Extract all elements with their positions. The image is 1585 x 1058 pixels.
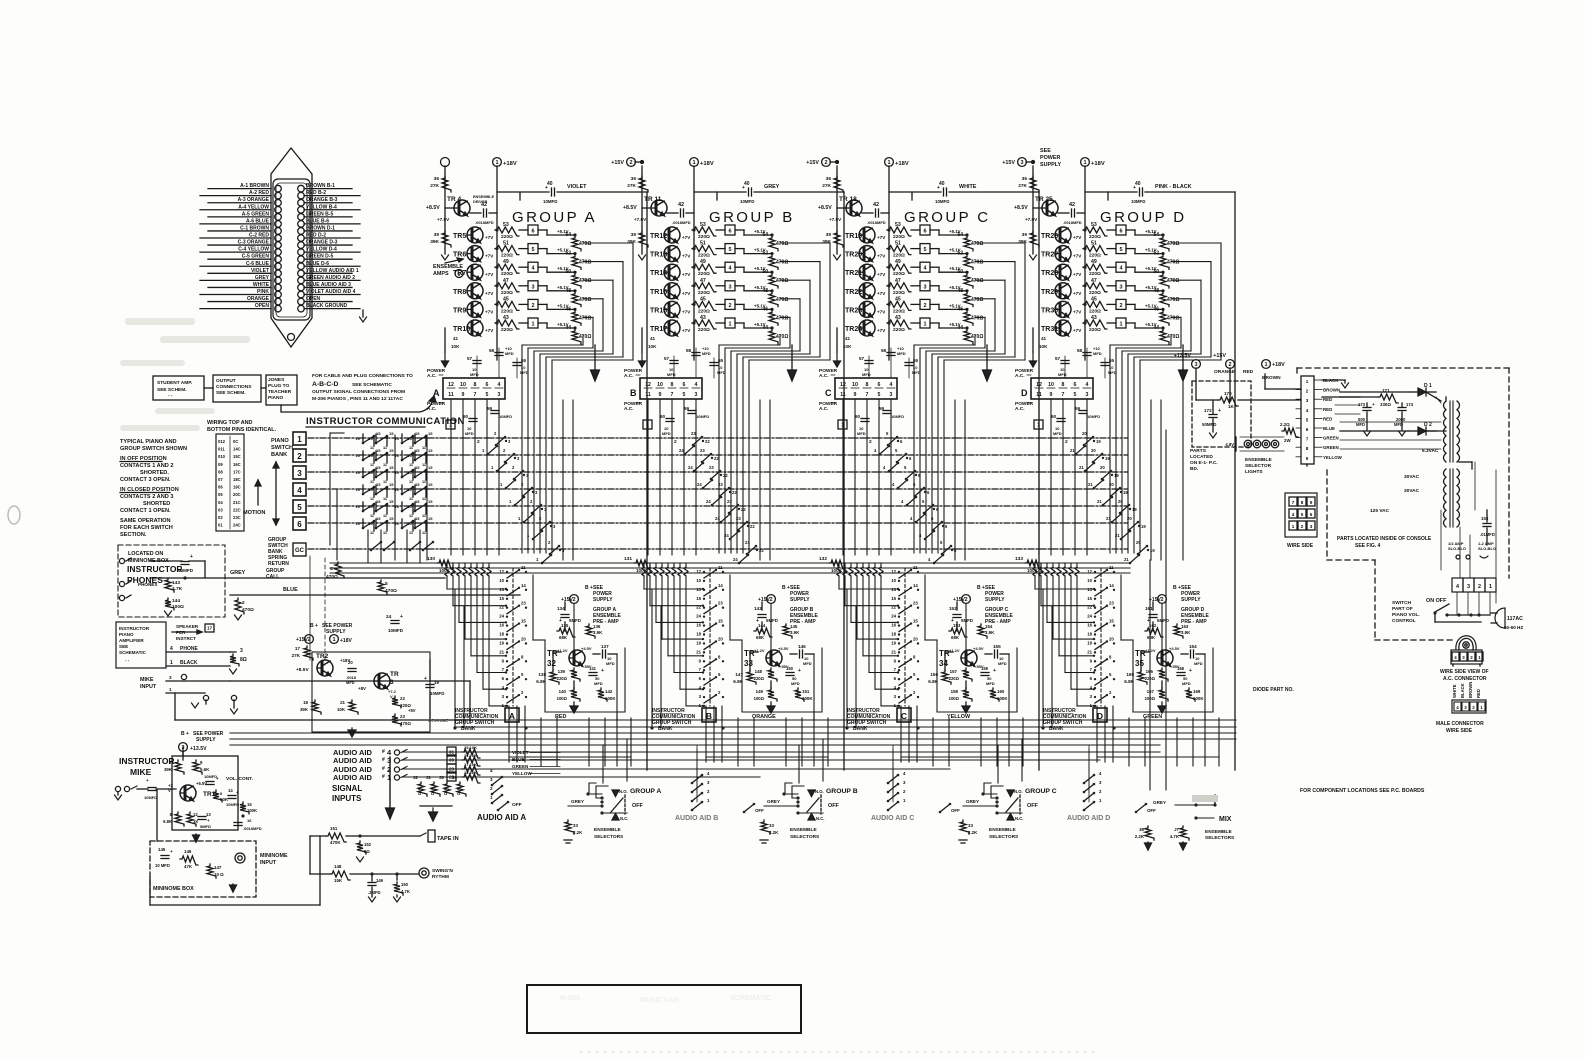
svg-text:15: 15: [376, 465, 381, 470]
svg-text:10: 10: [408, 470, 413, 475]
svg-text:33: 33: [769, 823, 774, 828]
svg-text:15: 15: [428, 431, 433, 436]
svg-text:OFF: OFF: [951, 808, 960, 813]
svg-text:+4.5V: +4.5V: [778, 646, 789, 651]
svg-text:BROWN: BROWN: [1468, 682, 1473, 698]
svg-text:68K: 68K: [1147, 635, 1156, 640]
svg-text:+: +: [190, 554, 193, 560]
svg-text:100K: 100K: [802, 696, 813, 701]
svg-text:20: 20: [1118, 499, 1123, 504]
svg-text:39K: 39K: [164, 767, 173, 772]
svg-text:GREY: GREY: [764, 184, 780, 190]
svg-text:3: 3: [531, 284, 534, 290]
svg-text:43: 43: [503, 315, 509, 321]
svg-text:49: 49: [1091, 259, 1097, 265]
svg-text:AUDIO AID A: AUDIO AID A: [477, 813, 526, 822]
svg-text:YELLOW B-4: YELLOW B-4: [306, 204, 337, 210]
svg-text:BANK: BANK: [461, 726, 476, 732]
svg-text:2: 2: [923, 303, 926, 309]
svg-text:TR26: TR26: [1041, 233, 1058, 240]
svg-text:+5.1V: +5.1V: [754, 303, 766, 308]
svg-text:BANK: BANK: [658, 726, 673, 732]
svg-text:B +: B +: [782, 585, 790, 591]
svg-text:24: 24: [386, 614, 392, 620]
svg-text:11: 11: [521, 565, 526, 570]
svg-text:+: +: [993, 668, 996, 674]
svg-text:4: 4: [498, 382, 501, 388]
svg-text:01: 01: [218, 523, 223, 528]
svg-text:ORANGE: ORANGE: [428, 718, 448, 723]
svg-text:11: 11: [422, 480, 426, 484]
svg-text:TR13: TR13: [650, 252, 667, 259]
svg-text:.0018MFD: .0018MFD: [672, 220, 691, 225]
svg-text:23: 23: [700, 448, 705, 453]
svg-text:15: 15: [376, 499, 381, 504]
svg-text:39K: 39K: [1018, 239, 1027, 245]
svg-text:CALL: CALL: [266, 574, 279, 580]
svg-text:1: 1: [923, 322, 926, 328]
svg-text:GREY: GREY: [767, 799, 780, 804]
svg-text:36: 36: [631, 176, 637, 182]
svg-text:22: 22: [400, 696, 405, 701]
svg-text:PLUG TO: PLUG TO: [268, 383, 290, 389]
svg-text:7: 7: [1292, 500, 1295, 505]
svg-text:TR 25: TR 25: [1035, 196, 1053, 203]
svg-text:15: 15: [428, 499, 433, 504]
svg-text:55: 55: [718, 358, 724, 363]
svg-text:+5.1V: +5.1V: [949, 229, 961, 234]
svg-text:INSTRUCTOR: INSTRUCTOR: [119, 756, 175, 766]
svg-text:155: 155: [993, 644, 1001, 649]
svg-text:11: 11: [383, 497, 387, 501]
svg-text:TR30: TR30: [1041, 307, 1058, 314]
svg-text:#: #: [382, 766, 385, 772]
svg-text:10K: 10K: [1039, 344, 1048, 349]
svg-text:AUDIO AID C: AUDIO AID C: [871, 815, 914, 822]
svg-text:10 MFD: 10 MFD: [155, 863, 170, 868]
svg-text:TR12: TR12: [650, 233, 667, 240]
svg-text:21: 21: [1079, 465, 1084, 470]
svg-text:220Ω: 220Ω: [1089, 234, 1101, 240]
svg-text:3: 3: [1119, 284, 1122, 290]
svg-text:10MFD: 10MFD: [891, 414, 904, 419]
svg-text:2: 2: [1228, 362, 1231, 368]
svg-text:BD.: BD.: [1190, 466, 1198, 472]
svg-text:15: 15: [389, 516, 394, 521]
svg-text:D 1: D 1: [1424, 383, 1432, 389]
svg-text:144: 144: [172, 598, 180, 604]
svg-text:+7V: +7V: [877, 254, 886, 259]
svg-text:ON E-1- P.C.: ON E-1- P.C.: [1190, 460, 1218, 466]
svg-text:A.C. CONNECTOR: A.C. CONNECTOR: [1443, 676, 1487, 682]
svg-text:B +: B +: [585, 585, 593, 591]
svg-text:AMPS: AMPS: [433, 271, 449, 277]
svg-text:GC: GC: [295, 548, 305, 554]
svg-text:31: 31: [426, 775, 431, 780]
svg-text:2: 2: [629, 160, 632, 166]
svg-text:BOTTOM PINS IDENTICAL.: BOTTOM PINS IDENTICAL.: [207, 427, 277, 433]
svg-text:19: 19: [499, 640, 504, 645]
svg-text:47: 47: [895, 278, 901, 284]
svg-text:SELECTORS: SELECTORS: [790, 834, 820, 840]
svg-text:+5.1V: +5.1V: [557, 248, 569, 253]
svg-text:TR 4: TR 4: [447, 196, 461, 203]
svg-text:5: 5: [531, 247, 534, 253]
svg-text:IN OFF POSITION: IN OFF POSITION: [120, 456, 167, 462]
svg-text:+5.1V: +5.1V: [949, 322, 961, 327]
svg-text:CONTACTS 1 AND 2: CONTACTS 1 AND 2: [120, 463, 173, 469]
svg-text:PIANO VOL.: PIANO VOL.: [1392, 612, 1420, 618]
svg-text:220Ω: 220Ω: [893, 253, 905, 259]
svg-text:1: 1: [887, 160, 890, 166]
svg-text:3: 3: [728, 284, 731, 290]
svg-text:470Ω: 470Ω: [579, 260, 591, 266]
svg-text:C: C: [901, 711, 907, 721]
svg-text:MFD: MFD: [520, 370, 529, 375]
svg-text:SHORTED.: SHORTED.: [140, 470, 169, 476]
svg-text:3: 3: [240, 648, 243, 654]
svg-text:19: 19: [1105, 456, 1110, 461]
svg-text:PIANO: PIANO: [268, 395, 283, 401]
svg-text:31: 31: [449, 750, 455, 755]
svg-text:146: 146: [184, 849, 192, 854]
svg-text:+: +: [1189, 668, 1192, 674]
svg-text:3: 3: [1306, 398, 1309, 403]
svg-text:32: 32: [413, 775, 418, 780]
svg-text:140: 140: [559, 689, 567, 694]
svg-text:100K: 100K: [636, 568, 648, 573]
svg-text:N.C.: N.C.: [620, 816, 628, 821]
svg-text:TR29: TR29: [1041, 289, 1058, 296]
svg-text:59: 59: [1075, 406, 1081, 411]
svg-text:220Ω: 220Ω: [698, 234, 710, 240]
svg-text:7: 7: [1062, 392, 1065, 398]
svg-text:+7V: +7V: [485, 272, 494, 277]
svg-text:2.2K: 2.2K: [968, 830, 978, 835]
svg-text:10MFD: 10MFD: [543, 199, 557, 204]
svg-text:10: 10: [395, 504, 400, 509]
svg-text:58: 58: [881, 348, 887, 353]
svg-text:VIOLET: VIOLET: [251, 268, 269, 274]
svg-text:16: 16: [247, 818, 252, 823]
svg-text:470Ω: 470Ω: [1167, 278, 1179, 284]
svg-text:21C: 21C: [233, 500, 241, 505]
svg-text:GROUP A: GROUP A: [512, 209, 597, 226]
svg-text:100Ω: 100Ω: [1145, 696, 1156, 701]
svg-text:+5.1V: +5.1V: [557, 303, 569, 308]
svg-text:RED: RED: [555, 714, 566, 720]
svg-text:36: 36: [1022, 176, 1028, 182]
svg-text:C-1 BROWN: C-1 BROWN: [240, 225, 269, 231]
svg-text:220Ω: 220Ω: [893, 290, 905, 296]
svg-text:+1.2V: +1.2V: [557, 648, 568, 653]
svg-text:220Ω: 220Ω: [893, 234, 905, 240]
svg-text:21: 21: [1070, 448, 1075, 453]
svg-text:22C: 22C: [233, 507, 241, 512]
svg-text:21: 21: [340, 700, 345, 705]
svg-text:+7V: +7V: [485, 235, 494, 240]
svg-text:+: +: [1133, 185, 1136, 191]
svg-text:34: 34: [939, 659, 948, 668]
svg-text:STUDENT AMP.: STUDENT AMP.: [157, 380, 192, 386]
svg-text:BLUE: BLUE: [1323, 426, 1335, 431]
svg-text:CONTACT 3 OPEN.: CONTACT 3 OPEN.: [120, 477, 171, 483]
svg-text:9: 9: [462, 392, 465, 398]
svg-text:53: 53: [1091, 222, 1097, 228]
svg-text:470Ω: 470Ω: [776, 297, 788, 303]
svg-text:30: 30: [449, 758, 455, 763]
svg-text:10: 10: [499, 578, 504, 583]
svg-text:22: 22: [741, 507, 746, 512]
svg-text:BROWN D-1: BROWN D-1: [306, 225, 335, 231]
svg-text:+15V: +15V: [1002, 160, 1015, 166]
svg-text:15: 15: [718, 619, 723, 624]
svg-text:17C: 17C: [233, 469, 241, 474]
svg-text:152: 152: [364, 842, 372, 847]
svg-text:RYTHM: RYTHM: [432, 874, 449, 880]
svg-text:15: 15: [376, 482, 381, 487]
svg-text:SLO-BLO: SLO-BLO: [1478, 546, 1496, 551]
svg-text:A.C.: A.C.: [1015, 373, 1025, 379]
svg-text:2: 2: [1301, 524, 1304, 529]
svg-text:51: 51: [1091, 241, 1097, 247]
svg-text:43: 43: [1091, 315, 1097, 321]
svg-text:MFD: MFD: [1093, 351, 1102, 356]
svg-text:220Ω: 220Ω: [501, 327, 513, 333]
svg-text:11: 11: [383, 446, 387, 450]
svg-text:6.8K: 6.8K: [536, 679, 546, 684]
svg-text:27K: 27K: [627, 183, 636, 189]
svg-text:1K: 1K: [1228, 404, 1235, 409]
svg-text:13: 13: [1087, 587, 1092, 592]
svg-text:+1.2V: +1.2V: [949, 648, 960, 653]
svg-text:15: 15: [376, 448, 381, 453]
svg-text:1: 1: [841, 423, 844, 429]
svg-text:6: 6: [683, 382, 686, 388]
svg-text:19: 19: [1087, 640, 1092, 645]
svg-text:41: 41: [845, 336, 851, 341]
svg-text:J7: J7: [1174, 827, 1179, 832]
svg-text:148: 148: [334, 864, 342, 869]
svg-text:10MFD: 10MFD: [226, 802, 239, 807]
svg-text:YELLOW: YELLOW: [1323, 455, 1343, 460]
svg-text:TAPE IN: TAPE IN: [437, 836, 459, 842]
svg-text:10: 10: [356, 521, 361, 526]
svg-text:20: 20: [718, 636, 723, 641]
svg-text:19C: 19C: [233, 485, 241, 490]
svg-text:470Ω: 470Ω: [971, 260, 983, 266]
svg-text:8Ω: 8Ω: [240, 657, 247, 663]
svg-text:18: 18: [303, 700, 308, 705]
svg-text:4: 4: [297, 486, 302, 495]
svg-text:1: 1: [1264, 362, 1267, 368]
svg-text:21: 21: [1088, 482, 1093, 487]
svg-text:IN CLOSED POSITION: IN CLOSED POSITION: [120, 487, 179, 493]
svg-text:3: 3: [1020, 160, 1023, 166]
svg-text:5: 5: [486, 392, 489, 398]
svg-text:10: 10: [395, 436, 400, 441]
svg-text:A.C.: A.C.: [819, 373, 829, 379]
svg-text:B +: B +: [310, 623, 318, 629]
svg-text:2: 2: [769, 597, 772, 603]
svg-text:15: 15: [1109, 619, 1114, 624]
svg-text:.0018MFD: .0018MFD: [867, 220, 886, 225]
svg-text:OPEN: OPEN: [306, 296, 321, 302]
svg-text:19: 19: [696, 640, 701, 645]
svg-text:POWER: POWER: [1040, 155, 1060, 161]
svg-text:470Ω: 470Ω: [242, 607, 254, 613]
svg-text:3: 3: [387, 756, 391, 765]
svg-text:BLACK: BLACK: [180, 660, 198, 666]
svg-text:010: 010: [218, 454, 226, 459]
svg-text:CONTACTS 2 AND 3: CONTACTS 2 AND 3: [120, 494, 173, 500]
svg-text:INSTRUCTOR COMMUNICATION: INSTRUCTOR COMMUNICATION: [306, 416, 465, 427]
svg-text:100K: 100K: [1193, 696, 1204, 701]
svg-text:BLUE B-6: BLUE B-6: [306, 218, 329, 224]
svg-text:11: 11: [370, 480, 374, 484]
svg-text:5: 5: [728, 247, 731, 253]
svg-text:ORANGE: ORANGE: [247, 296, 270, 302]
svg-text:+: +: [170, 849, 173, 854]
svg-text:7: 7: [1306, 437, 1309, 442]
svg-text:22: 22: [723, 473, 728, 478]
svg-text:10MFD: 10MFD: [499, 414, 512, 419]
svg-text:24: 24: [715, 516, 720, 521]
svg-text:39: 39: [631, 232, 637, 238]
svg-text:6.8K: 6.8K: [1124, 679, 1134, 684]
svg-text:8: 8: [1062, 382, 1065, 388]
svg-text:47: 47: [503, 278, 509, 284]
svg-text:134: 134: [557, 606, 565, 611]
svg-text:470Ω: 470Ω: [971, 334, 983, 340]
svg-text:+7V: +7V: [485, 328, 494, 333]
svg-text:11: 11: [1109, 565, 1114, 570]
svg-text:SEE SCHEMATIC: SEE SCHEMATIC: [352, 382, 392, 388]
svg-text:16: 16: [891, 623, 896, 628]
svg-text:470Ω: 470Ω: [1167, 297, 1179, 303]
svg-text:SUPPLY: SUPPLY: [790, 597, 810, 603]
svg-text:24C: 24C: [233, 523, 241, 528]
svg-text:SUPPLY: SUPPLY: [196, 737, 216, 743]
svg-text:.0018MFD: .0018MFD: [475, 220, 494, 225]
svg-text:5MFD: 5MFD: [200, 824, 211, 829]
svg-text:220Ω: 220Ω: [754, 676, 765, 681]
svg-text:+7V: +7V: [682, 309, 691, 314]
svg-text:MFD: MFD: [862, 372, 871, 377]
svg-text:135: 135: [561, 623, 569, 628]
svg-text:C: C: [825, 388, 832, 398]
svg-text:+7V: +7V: [682, 254, 691, 259]
svg-text:1: 1: [449, 423, 452, 429]
svg-text:N.C.: N.C.: [1015, 816, 1023, 821]
svg-text:PINK: PINK: [257, 289, 269, 295]
svg-text:SUPPLY: SUPPLY: [593, 597, 613, 603]
svg-text:42: 42: [678, 202, 684, 208]
svg-text:+5.1V: +5.1V: [1145, 322, 1157, 327]
svg-text:2: 2: [297, 452, 302, 461]
svg-text:10: 10: [408, 521, 413, 526]
svg-text:+5.1V: +5.1V: [949, 248, 961, 253]
svg-text:4: 4: [890, 382, 893, 388]
svg-text:ORANGE: ORANGE: [1214, 369, 1236, 375]
svg-text:+4.5V: +4.5V: [973, 646, 984, 651]
svg-text:22: 22: [1087, 605, 1092, 610]
svg-text:50-60 HZ: 50-60 HZ: [1504, 625, 1523, 630]
svg-text:TR6: TR6: [453, 252, 466, 259]
svg-text:PARTS: PARTS: [1190, 448, 1207, 454]
svg-text:23: 23: [691, 431, 696, 436]
svg-text:10K: 10K: [451, 344, 460, 349]
svg-text:BANK: BANK: [853, 726, 868, 732]
svg-text:8: 8: [1301, 500, 1304, 505]
svg-text:+18V: +18V: [895, 161, 909, 167]
svg-text:39: 39: [434, 232, 440, 238]
svg-text:05: 05: [218, 492, 223, 497]
svg-text:1: 1: [332, 637, 335, 643]
svg-text:157: 157: [950, 669, 958, 674]
svg-text:MFD: MFD: [1058, 372, 1067, 377]
svg-text:D: D: [1097, 711, 1103, 721]
svg-text:20: 20: [1091, 448, 1096, 453]
svg-text:138: 138: [538, 672, 546, 677]
svg-text:OFF: OFF: [1027, 803, 1038, 809]
svg-text:10: 10: [369, 487, 374, 492]
svg-text:GREY: GREY: [966, 799, 979, 804]
svg-text:21: 21: [891, 649, 896, 654]
svg-text:12: 12: [696, 569, 701, 574]
svg-text:10MFD: 10MFD: [696, 414, 709, 419]
svg-text:+8.5V: +8.5V: [818, 205, 832, 211]
svg-text:2: 2: [490, 786, 493, 791]
svg-text:15: 15: [428, 516, 433, 521]
svg-text:161: 161: [1145, 606, 1153, 611]
svg-text:49: 49: [700, 259, 706, 265]
svg-text:42: 42: [481, 202, 487, 208]
svg-text:470Ω: 470Ω: [1167, 260, 1179, 266]
svg-text:+15V: +15V: [1213, 353, 1226, 359]
svg-text:330Ω: 330Ω: [1380, 402, 1391, 407]
svg-text:TR16: TR16: [650, 307, 667, 314]
svg-text:1: 1: [490, 795, 493, 800]
svg-text:VIOLET AUDIO AID 4: VIOLET AUDIO AID 4: [306, 289, 356, 295]
svg-text:15: 15: [415, 431, 420, 436]
svg-text:159: 159: [981, 666, 989, 671]
svg-text:+: +: [400, 614, 403, 620]
svg-text:1: 1: [1292, 524, 1295, 529]
svg-text:4: 4: [490, 768, 493, 773]
svg-text:TEACHER: TEACHER: [268, 389, 292, 395]
svg-text:4: 4: [170, 646, 173, 652]
svg-text:SUPPLY: SUPPLY: [985, 597, 1005, 603]
svg-text:100K: 100K: [439, 568, 451, 573]
svg-text:168: 168: [1177, 666, 1185, 671]
svg-text:+5.1V: +5.1V: [754, 248, 766, 253]
svg-text:10: 10: [395, 470, 400, 475]
svg-text:1: 1: [170, 660, 173, 666]
svg-text:+5.1V: +5.1V: [949, 303, 961, 308]
svg-text:9: 9: [1306, 456, 1309, 461]
svg-text:10: 10: [408, 487, 413, 492]
svg-text:470Ω: 470Ω: [776, 315, 788, 321]
svg-text:5MFD: 5MFD: [766, 618, 778, 623]
svg-text:53: 53: [503, 222, 509, 228]
svg-text:11: 11: [409, 497, 413, 501]
svg-text:15: 15: [415, 516, 420, 521]
svg-text:INSTRUCTOR: INSTRUCTOR: [127, 564, 183, 574]
svg-text:A-4 YELLOW: A-4 YELLOW: [238, 204, 269, 210]
svg-text:WHITE: WHITE: [253, 282, 270, 288]
svg-text:148: 148: [755, 669, 763, 674]
